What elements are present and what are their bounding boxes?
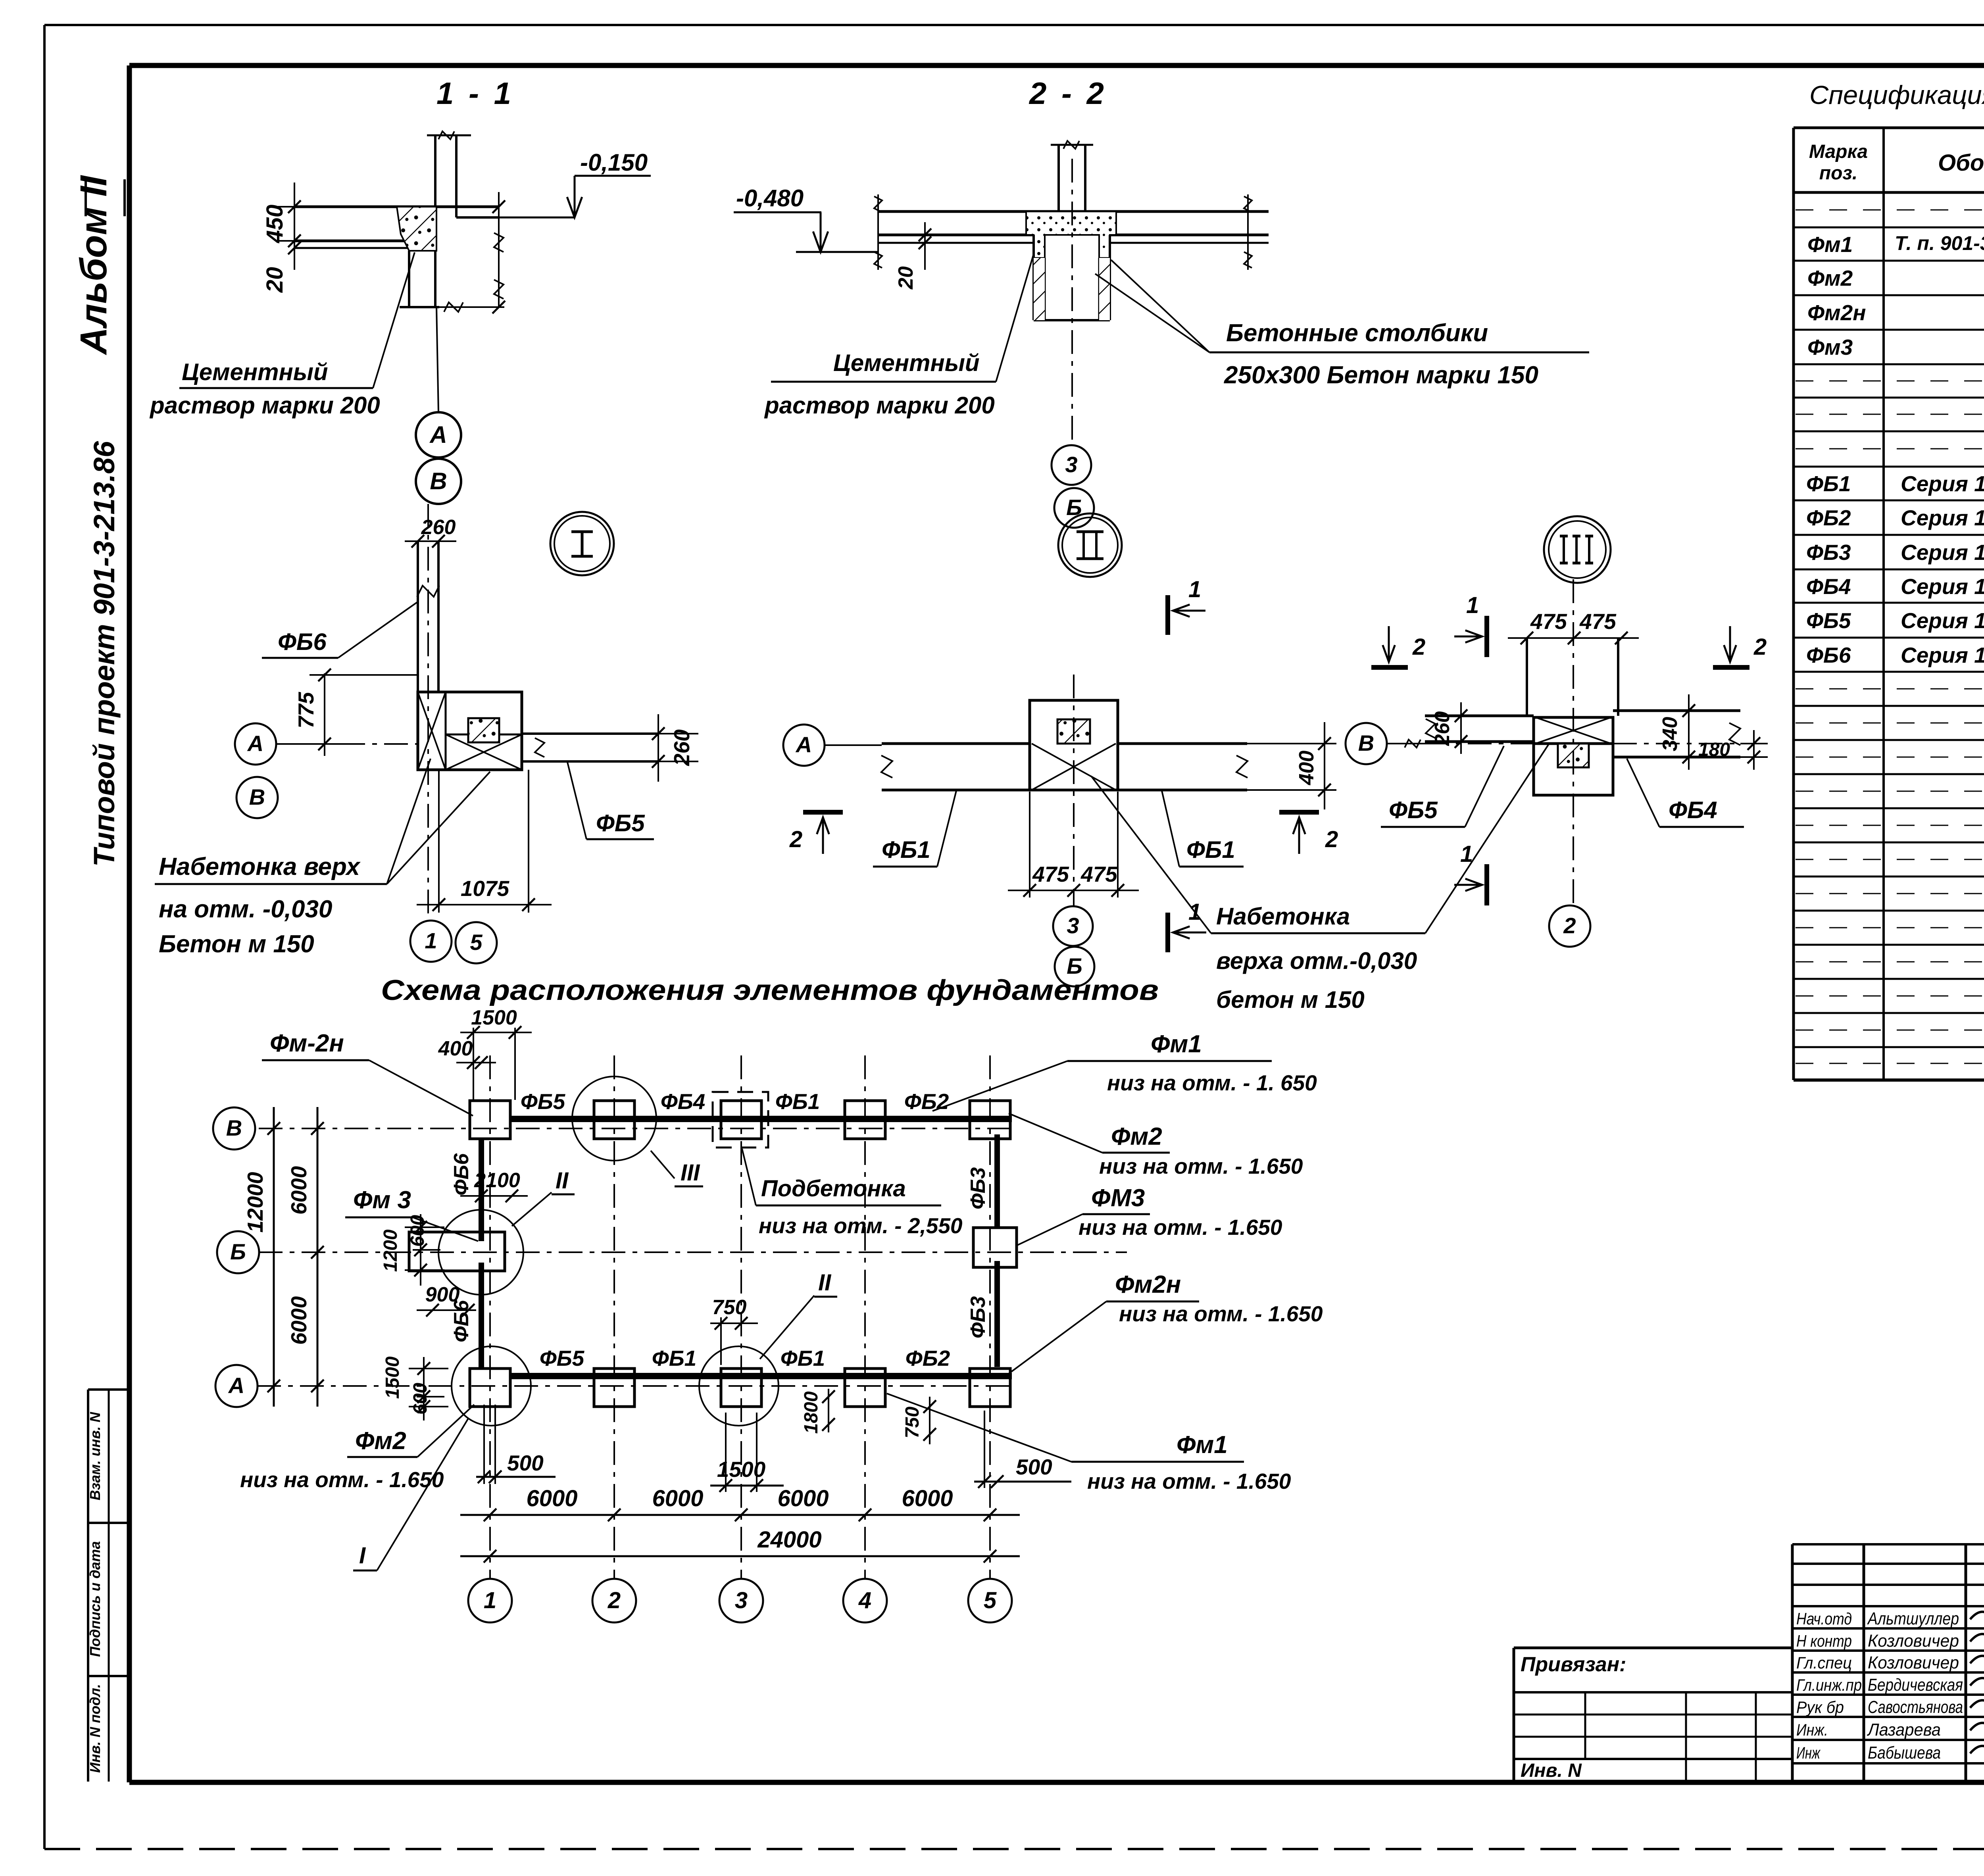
plan detail circle II at A-3	[699, 1270, 837, 1426]
svg-text:Инж: Инж	[1796, 1743, 1821, 1762]
svg-text:Т. п. 901-3-213.86 КЖ-: Т. п. 901-3-213.86 КЖ-	[1895, 232, 1984, 254]
svg-text:260: 260	[421, 516, 456, 539]
svg-text:ФБ4: ФБ4	[661, 1089, 705, 1114]
svg-text:В: В	[430, 468, 447, 494]
svg-text:Серия 1. 415-1: Серия 1. 415-1	[1901, 643, 1984, 667]
plan detail circle III at V-2	[572, 1076, 703, 1186]
svg-text:низ на отм. - 1.650: низ на отм. - 1.650	[1119, 1301, 1323, 1326]
svg-text:1: 1	[1460, 841, 1473, 867]
plan beam labels vertical	[450, 1153, 990, 1342]
svg-text:Типовой проект 901-3-213.86: Типовой проект 901-3-213.86	[88, 441, 121, 867]
detail III beam FB4 right	[1613, 711, 1740, 757]
section 1-1 foundation pier	[400, 251, 439, 307]
detail III bubble	[1544, 516, 1611, 583]
svg-text:Фм2: Фм2	[1807, 266, 1853, 290]
spec table row Fm1	[1807, 232, 1984, 257]
svg-text:ФБ5: ФБ5	[1806, 608, 1851, 633]
svg-text:3: 3	[1065, 452, 1077, 477]
svg-text:раствор марки 200: раствор марки 200	[149, 392, 380, 419]
detail II bubble	[1058, 513, 1122, 577]
plan label Fm-2n	[262, 1030, 473, 1116]
svg-text:ФБ3: ФБ3	[967, 1167, 990, 1209]
svg-text:2: 2	[1412, 634, 1425, 660]
svg-text:ФБ2: ФБ2	[1806, 506, 1851, 530]
svg-text:Серия 1. 415-1: Серия 1. 415-1	[1901, 574, 1984, 599]
plan bottom dim row 6000s	[460, 1486, 1020, 1521]
plan label FM3 right	[1016, 1184, 1282, 1246]
svg-text:низ на отм. - 1.650: низ на отм. - 1.650	[1087, 1469, 1291, 1493]
svg-text:Марка: Марка	[1809, 141, 1868, 162]
plan beams row V	[510, 1116, 1012, 1122]
svg-text:ФБ6: ФБ6	[450, 1153, 473, 1196]
section 2-2 centerline	[1071, 159, 1073, 445]
detail II beam lines	[881, 744, 1248, 790]
detail III column section	[1558, 744, 1589, 767]
section 2-2 column	[1051, 141, 1093, 211]
section 2-2 title	[1029, 76, 1107, 111]
section 1-1 title	[436, 76, 514, 111]
detail II note nabetonka	[1091, 776, 1425, 1013]
svg-text:2: 2	[608, 1588, 621, 1613]
svg-text:3: 3	[735, 1588, 748, 1613]
detail III section mark 1 lower	[1454, 841, 1487, 905]
svg-text:6000: 6000	[652, 1486, 703, 1511]
detail III section mark 2 right	[1713, 626, 1767, 667]
svg-text:6000: 6000	[777, 1486, 829, 1511]
detail I beam FB5 horizontal	[522, 734, 658, 761]
plan dim 500 right	[974, 1411, 1071, 1488]
svg-text:12000: 12000	[243, 1172, 267, 1232]
detail II section mark 2 left	[789, 812, 843, 854]
svg-text:ФБ5: ФБ5	[521, 1089, 566, 1114]
svg-text:Привязан:: Привязан:	[1521, 1653, 1626, 1676]
plan dims 600 1200 left of FM3	[380, 1214, 444, 1286]
detail II dim 475 475	[1008, 792, 1139, 898]
svg-text:Нач.отд: Нач.отд	[1796, 1609, 1852, 1628]
svg-text:475: 475	[1080, 862, 1118, 886]
svg-text:II: II	[556, 1168, 569, 1194]
svg-text:Лазарева: Лазарева	[1867, 1720, 1941, 1740]
svg-text:Серия 1. 415-1: Серия 1. 415-1	[1901, 471, 1984, 496]
plan dim 900	[417, 1283, 476, 1317]
svg-text:6000: 6000	[902, 1486, 953, 1511]
detail II section mark 1 top	[1168, 577, 1205, 635]
plan label Fm1 bottom	[887, 1394, 1291, 1493]
svg-text:Альбом II: Альбом II	[73, 175, 115, 355]
svg-text:6000: 6000	[526, 1486, 577, 1511]
svg-text:Цементный: Цементный	[833, 350, 980, 376]
section 1-1 elevation -0.150	[468, 149, 651, 217]
title block signatures	[1970, 1607, 1984, 1757]
detail II label FB1 left	[873, 791, 956, 867]
svg-text:Фм1: Фм1	[1177, 1431, 1228, 1459]
spec table row ФБ1	[1806, 471, 1984, 496]
svg-text:Бабышева: Бабышева	[1868, 1743, 1941, 1763]
plan dims 1500 600 left of A1	[382, 1356, 448, 1420]
svg-text:20: 20	[894, 266, 917, 290]
detail III axis circle B	[1346, 723, 1425, 764]
svg-text:А: А	[429, 421, 447, 448]
svg-text:340: 340	[1659, 717, 1682, 752]
svg-text:Фм 3: Фм 3	[353, 1186, 411, 1214]
detail III node square	[1534, 717, 1613, 744]
section 1-1 dim 450	[262, 183, 310, 270]
svg-text:Набетонка: Набетонка	[1216, 903, 1350, 930]
section 2-2 axis circle 3	[1052, 445, 1091, 485]
svg-text:1500: 1500	[717, 1457, 766, 1482]
plan dim 1800	[801, 1389, 835, 1434]
svg-text:ФБ1: ФБ1	[775, 1089, 820, 1114]
detail II label FB1 right	[1162, 791, 1244, 867]
title block row Гл.инж.пр	[1796, 1675, 1963, 1695]
detail III grid circle 2	[1549, 905, 1590, 947]
svg-text:Инв. N подл.: Инв. N подл.	[87, 1684, 103, 1773]
plan left dim 6000s	[286, 1107, 324, 1407]
svg-text:Гл.спец: Гл.спец	[1796, 1653, 1852, 1672]
svg-text:Рук бр: Рук бр	[1796, 1698, 1844, 1716]
svg-text:А: А	[247, 731, 263, 756]
detail I dim 260 top	[405, 516, 456, 548]
svg-text:Схема расположения элементов: Схема расположения элементов фундаментов	[381, 975, 1159, 1006]
svg-text:24000: 24000	[757, 1527, 821, 1553]
plan dim 2100	[460, 1169, 528, 1202]
svg-text:1: 1	[425, 928, 437, 953]
svg-text:ФМ3: ФМ3	[1091, 1184, 1145, 1212]
svg-text:Фм1: Фм1	[1151, 1030, 1202, 1058]
detail II column section	[1057, 719, 1090, 744]
svg-text:1200: 1200	[380, 1229, 401, 1272]
title block row Инж.	[1796, 1720, 1941, 1740]
svg-text:Серия 1. 415-1: Серия 1. 415-1	[1901, 540, 1984, 565]
detail III axis line	[1425, 743, 1768, 744]
detail II section mark 2 right	[1279, 812, 1338, 854]
plan beam labels row A	[540, 1346, 950, 1370]
section 2-2 label cement mortar	[764, 254, 1034, 419]
plan dim 750 col3	[710, 1296, 758, 1365]
detail I dim 775	[294, 669, 417, 756]
plan label Fm2 right	[1009, 1113, 1303, 1178]
svg-text:2: 2	[789, 827, 802, 852]
svg-text:ФБ2: ФБ2	[904, 1089, 949, 1114]
spec table row ФБ3	[1806, 540, 1984, 565]
svg-text:1 - 1: 1 - 1	[436, 76, 514, 111]
svg-text:250х300 Бетон марки 150: 250х300 Бетон марки 150	[1224, 361, 1538, 389]
section 2-2 label concrete posts	[1095, 260, 1589, 389]
svg-text:II: II	[818, 1270, 832, 1296]
svg-text:Фм1: Фм1	[1807, 232, 1853, 257]
title block personnel table	[1792, 1544, 1984, 1782]
svg-text:1: 1	[1466, 592, 1479, 618]
svg-text:Обозначение: Обозначение	[1938, 150, 1984, 176]
svg-text:2: 2	[1753, 634, 1767, 660]
svg-text:ФБ2: ФБ2	[905, 1346, 950, 1370]
detail II centerline	[1073, 675, 1075, 905]
svg-text:Фм2н: Фм2н	[1115, 1271, 1181, 1298]
svg-text:2 - 2: 2 - 2	[1029, 76, 1107, 111]
svg-text:I: I	[359, 1543, 366, 1568]
left margin album text	[73, 175, 125, 355]
spec table title	[1809, 80, 1984, 110]
svg-text:Цементный: Цементный	[182, 359, 328, 385]
svg-text:1075: 1075	[461, 876, 510, 901]
svg-text:260: 260	[669, 729, 694, 766]
section 1-1 cement joint hatch	[397, 207, 436, 251]
svg-text:400: 400	[438, 1037, 473, 1060]
svg-text:Козловичер: Козловичер	[1868, 1631, 1959, 1651]
svg-text:Фм2: Фм2	[355, 1427, 406, 1455]
svg-text:Фм-2н: Фм-2н	[270, 1030, 344, 1057]
svg-text:1: 1	[484, 1588, 496, 1613]
detail I label FB5	[567, 762, 654, 839]
spec table row ФБ4	[1806, 574, 1984, 599]
svg-text:Фм3: Фм3	[1807, 335, 1853, 359]
svg-text:900: 900	[425, 1283, 460, 1306]
detail II grid circles 3 B	[1053, 906, 1094, 986]
section 1-1 axis circle A	[416, 307, 461, 457]
detail I dim 260 right	[647, 714, 698, 782]
spec table row ФБ5	[1806, 608, 1984, 633]
detail I axis line	[341, 743, 418, 745]
detail I bubble	[550, 512, 614, 575]
plan foundation squares row A	[470, 1369, 1010, 1407]
plan left dim 12000	[243, 1107, 280, 1407]
svg-text:Фм2н: Фм2н	[1807, 300, 1866, 325]
svg-text:на отм. -0,030: на отм. -0,030	[159, 896, 332, 923]
detail III dim 340	[1659, 694, 1695, 770]
svg-text:Серия 1. 415-1: Серия 1. 415-1	[1901, 608, 1984, 633]
detail I label FB6	[262, 602, 417, 658]
svg-text:ФБ1: ФБ1	[1806, 471, 1851, 496]
plan label FM3 left leader	[345, 1186, 478, 1241]
detail III dim 475 475 top	[1508, 609, 1639, 644]
svg-text:ФБ1: ФБ1	[652, 1346, 696, 1370]
svg-text:верха отм.-0,030: верха отм.-0,030	[1216, 948, 1417, 974]
detail II dim 400	[1247, 722, 1336, 809]
svg-text:475: 475	[1032, 862, 1069, 886]
svg-text:1500: 1500	[382, 1356, 403, 1399]
svg-text:III: III	[681, 1160, 700, 1186]
spec table grid	[1794, 128, 1984, 1080]
svg-text:поз.: поз.	[1819, 163, 1857, 184]
spec table row Fm2n	[1807, 300, 1984, 325]
spec table row Fm3	[1807, 335, 1984, 359]
svg-text:низ на отм. - 1.650: низ на отм. - 1.650	[240, 1467, 444, 1492]
svg-text:5: 5	[984, 1588, 997, 1613]
section 2-2 axis circle B2	[1054, 488, 1094, 528]
spec table header	[1809, 141, 1984, 184]
section 1-1 column	[427, 131, 471, 253]
plan beams row A	[510, 1373, 1012, 1379]
svg-text:Набетонка верх: Набетонка верх	[159, 853, 361, 880]
plan title	[381, 975, 1159, 1006]
detail III label FB5	[1381, 746, 1504, 827]
detail III beam FB5 left	[1425, 716, 1534, 742]
svg-text:20: 20	[262, 267, 288, 293]
svg-text:А: А	[795, 732, 812, 757]
svg-text:5: 5	[470, 930, 483, 955]
svg-text:475: 475	[1579, 609, 1617, 634]
svg-text:Инв. N: Инв. N	[1521, 1760, 1582, 1781]
svg-text:ФБ6: ФБ6	[278, 629, 327, 655]
svg-text:Спецификация расположения эл: Спецификация расположения элементов фунд…	[1809, 80, 1984, 110]
title block row Рук бр	[1796, 1697, 1963, 1717]
svg-text:Гл.инж.пр: Гл.инж.пр	[1796, 1676, 1862, 1694]
detail II center block	[1030, 700, 1118, 790]
section 1-1 label cement mortar	[149, 252, 415, 419]
svg-text:6000: 6000	[286, 1166, 311, 1215]
plan beam FB3 col5 vertical	[994, 1134, 1000, 1367]
svg-text:ФБ1: ФБ1	[781, 1346, 825, 1370]
plan dims 1500 400 top	[438, 1006, 532, 1101]
plan dim 500 left	[476, 1405, 556, 1484]
svg-text:2100: 2100	[474, 1169, 520, 1192]
section 2-2 floor slab	[878, 211, 1269, 243]
svg-text:ФБ3: ФБ3	[1806, 540, 1851, 565]
plan foundation FM3 rect	[409, 1232, 505, 1271]
detail I note nabetonka	[155, 759, 490, 958]
svg-text:2: 2	[1325, 827, 1338, 852]
plan axis centerlines	[257, 1128, 1127, 1386]
svg-text:-0,480: -0,480	[736, 185, 804, 211]
svg-text:-0,150: -0,150	[580, 149, 648, 176]
plan column grid centerlines	[490, 1055, 990, 1578]
svg-text:Бердичевская: Бердичевская	[1868, 1675, 1963, 1695]
plan label Fm2n right	[1009, 1271, 1323, 1374]
svg-text:ФБ1: ФБ1	[1186, 836, 1235, 863]
title block row Нач.отд	[1796, 1609, 1959, 1628]
svg-text:ФБ4: ФБ4	[1669, 797, 1717, 823]
detail I dim 1075	[417, 770, 552, 913]
section 1-1 dim 20	[262, 242, 301, 293]
svg-text:450: 450	[262, 205, 288, 244]
svg-text:раствор марки 200: раствор марки 200	[764, 392, 995, 419]
section 2-2 dim 20	[894, 222, 931, 290]
title block row Н контр	[1796, 1631, 1959, 1651]
svg-text:ФБ3: ФБ3	[967, 1296, 990, 1338]
svg-text:475: 475	[1530, 609, 1567, 634]
svg-text:180: 180	[1698, 739, 1730, 760]
spec table row Fm2	[1807, 266, 1984, 290]
svg-text:6000: 6000	[286, 1296, 311, 1345]
spec table row ФБ6	[1806, 643, 1984, 667]
svg-text:низ на отм. - 1.650: низ на отм. - 1.650	[1079, 1215, 1282, 1240]
svg-text:ФБ5: ФБ5	[1389, 797, 1438, 823]
svg-text:Бетонные столбики: Бетонные столбики	[1226, 319, 1488, 347]
svg-text:500: 500	[1016, 1455, 1052, 1479]
detail I column section	[468, 718, 499, 742]
section 1-1 right dim line	[492, 192, 505, 313]
svg-text:1: 1	[1188, 577, 1201, 602]
section 2-2 slab end dims	[874, 194, 1252, 270]
svg-text:ФБ5: ФБ5	[540, 1346, 585, 1370]
detail III centerline vertical	[1573, 579, 1574, 905]
plan dashed podbetonka square	[713, 1092, 768, 1148]
detail I axis circles A B left	[235, 723, 341, 818]
plan bottom dim 24000	[460, 1527, 1020, 1563]
section 2-2 cement head strip	[1026, 211, 1116, 258]
svg-text:ФБ1: ФБ1	[882, 836, 930, 863]
svg-text:Козловичер: Козловичер	[1868, 1653, 1959, 1672]
plan dim 750 right	[902, 1397, 936, 1444]
plan column circles	[468, 1579, 1012, 1622]
plan axis circles	[213, 1107, 259, 1407]
plan label Fm2 bottom left	[240, 1405, 474, 1492]
section 1-1 floor slab	[294, 207, 499, 248]
svg-text:ФБ5: ФБ5	[596, 810, 645, 836]
plan beam labels row V	[521, 1089, 949, 1114]
left margin project text	[88, 441, 121, 867]
svg-text:Альтшуллер: Альтшуллер	[1867, 1609, 1959, 1628]
svg-text:Подпись и дата: Подпись и дата	[87, 1541, 103, 1657]
title block privyazan box	[1514, 1648, 1792, 1782]
section 2-2 elevation -0.480	[734, 185, 878, 252]
detail I node square	[418, 692, 522, 770]
section 2-2 concrete pier	[1034, 235, 1110, 320]
detail I grid circles 1 and 5	[410, 921, 497, 963]
svg-text:Подбетонка: Подбетонка	[761, 1176, 906, 1201]
svg-text:1500: 1500	[471, 1006, 517, 1029]
svg-text:Взам. инв. N: Взам. инв. N	[87, 1412, 103, 1501]
detail III upper box	[1527, 638, 1618, 716]
svg-text:750: 750	[902, 1407, 923, 1438]
detail III section mark 1 upper	[1454, 592, 1487, 657]
svg-text:Фм2: Фм2	[1111, 1123, 1162, 1150]
detail III dim 260	[1431, 702, 1480, 754]
title block row Гл.спец	[1796, 1653, 1959, 1672]
detail II axis circle A	[783, 725, 882, 766]
section 1-1 bottom dim line	[400, 302, 504, 312]
plan beam FB6 col1 vertical	[479, 1138, 484, 1369]
svg-text:В: В	[249, 784, 265, 809]
title block row Инж	[1796, 1743, 1941, 1763]
svg-text:Бетон м 150: Бетон м 150	[159, 930, 314, 958]
svg-text:400: 400	[1295, 751, 1318, 786]
svg-text:1800: 1800	[801, 1391, 822, 1434]
svg-text:низ на отм. - 2,550: низ на отм. - 2,550	[759, 1213, 963, 1238]
plan label Fm1 top	[932, 1030, 1317, 1111]
svg-text:Серия 1. 415-1: Серия 1. 415-1	[1901, 506, 1984, 530]
detail I centerline vertical	[427, 504, 429, 917]
spec table row ФБ2	[1806, 506, 1984, 530]
detail III lower box	[1534, 744, 1613, 795]
svg-text:ФБ4: ФБ4	[1806, 574, 1851, 599]
left margin stamp boxes	[87, 1390, 129, 1782]
svg-text:750: 750	[712, 1296, 747, 1319]
svg-text:Савостьянова: Савостьянова	[1868, 1697, 1963, 1717]
plan detail circle II at B-1	[438, 1168, 575, 1295]
plan detail circle I at A-1	[353, 1346, 531, 1570]
svg-text:500: 500	[507, 1451, 544, 1475]
svg-text:Б: Б	[230, 1239, 246, 1264]
detail III section mark 2 left	[1371, 626, 1425, 667]
svg-text:низ на отм. - 1.650: низ на отм. - 1.650	[1099, 1154, 1303, 1178]
plan dim 1500 bottom c3	[710, 1413, 784, 1492]
svg-text:ФБ6: ФБ6	[1806, 643, 1851, 667]
plan foundation square B5	[973, 1228, 1017, 1267]
svg-text:низ на отм. - 1. 650: низ на отм. - 1. 650	[1107, 1071, 1317, 1095]
svg-text:В: В	[1358, 730, 1374, 755]
svg-text:А: А	[228, 1373, 244, 1398]
svg-text:бетон м 150: бетон м 150	[1216, 986, 1365, 1013]
detail III dim 180	[1698, 730, 1768, 770]
plan foundation squares row V	[470, 1101, 1010, 1139]
svg-text:В: В	[226, 1115, 242, 1140]
plan label podbetonka	[742, 1149, 963, 1238]
svg-text:2: 2	[1563, 913, 1576, 938]
svg-text:3: 3	[1067, 913, 1079, 938]
detail I beam FB6 vertical	[417, 541, 439, 692]
svg-text:4: 4	[858, 1588, 871, 1613]
